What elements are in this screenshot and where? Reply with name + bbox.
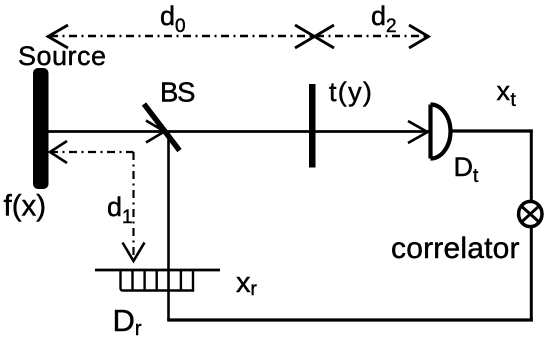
wire: main beam horizontal	[48, 130, 430, 133]
detector Dr plane line	[95, 269, 220, 272]
svg-text:BS: BS	[160, 77, 195, 108]
multiplier symbol correlator	[519, 201, 542, 226]
dimension line d1 vertical (dash-dot)	[132, 152, 134, 258]
wire: right vertical down to correlator	[530, 130, 533, 202]
mask t(y)	[309, 84, 316, 168]
wire: correlator to bottom-right corner	[530, 228, 533, 322]
dimension line d2 (dash-dot)	[316, 35, 427, 37]
wire: bottom horizontal	[167, 318, 533, 321]
wire: Dt output to top-right corner	[451, 129, 533, 132]
arrowhead d2 right	[409, 25, 429, 48]
arrowhead d1 left	[50, 141, 67, 163]
arrowhead into BS	[146, 121, 165, 143]
wire: vertical beam from BS down to bottom corner	[167, 132, 170, 321]
arrowhead d0 right	[295, 25, 315, 48]
dimension line d1 horizontal (dash-dot)	[50, 151, 134, 153]
svg-text:t(y): t(y)	[329, 77, 373, 107]
source plane bar	[33, 68, 49, 189]
svg-text:Source: Source	[18, 41, 107, 71]
detector Dt (D shape)	[431, 105, 451, 159]
arrowhead d2 left	[315, 25, 335, 48]
arrowhead d1 down	[123, 243, 145, 262]
detector Dr segmented box	[121, 271, 194, 291]
arrowhead into Dt	[408, 121, 428, 143]
arrowhead d0 left	[48, 25, 68, 48]
svg-text:f(x): f(x)	[4, 190, 47, 223]
svg-text:correlator: correlator	[391, 232, 520, 265]
beam splitter BS	[144, 104, 180, 151]
dimension line d0 (dash-dot)	[50, 35, 313, 37]
